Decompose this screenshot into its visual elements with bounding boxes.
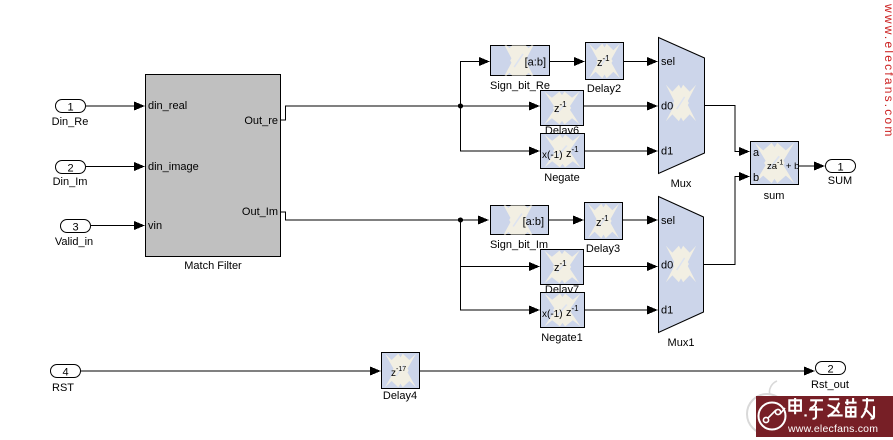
wire Delay2 to Mux sel: [624, 57, 658, 66]
svg-text:za-1 + b: za-1 + b: [767, 160, 799, 173]
svg-text:Match Filter: Match Filter: [184, 260, 242, 272]
block Negate: [541, 134, 585, 185]
junction node Out_re: [458, 103, 463, 108]
wire branch to Delay7: [461, 220, 541, 271]
svg-text:Negate: Negate: [544, 172, 579, 184]
svg-text:d1: d1: [661, 305, 673, 317]
block Mux: [659, 38, 705, 191]
svg-text:SUM: SUM: [828, 175, 852, 187]
block Mux1: [659, 197, 704, 350]
input port 2 Din_Im: [53, 161, 88, 189]
block Sign_bit_Im: [490, 201, 549, 251]
block Delay4: [382, 353, 420, 403]
svg-text:a: a: [753, 147, 760, 159]
watermark embossed curl outside box: [747, 381, 787, 434]
wire branch to Negate1: [461, 267, 541, 315]
svg-text:Delay2: Delay2: [587, 83, 621, 95]
wire Out_re trunk: [281, 106, 460, 120]
svg-text:d0: d0: [661, 260, 673, 272]
svg-text:x(-1): x(-1): [542, 309, 563, 320]
svg-text:2: 2: [827, 364, 833, 376]
svg-text:Delay4: Delay4: [383, 390, 417, 402]
block Delay6: [541, 91, 584, 126]
wire sum to SUM port: [799, 162, 825, 171]
svg-text:d0: d0: [661, 101, 673, 113]
wire Sign_bit_Im to Delay3: [548, 216, 584, 225]
svg-text:Out_re: Out_re: [244, 115, 278, 127]
svg-text:b: b: [753, 172, 759, 184]
wire branch to Negate: [461, 106, 541, 156]
svg-text:[a:b]: [a:b]: [523, 216, 544, 228]
svg-text:1: 1: [837, 162, 843, 174]
svg-text:Sign_bit_Im: Sign_bit_Im: [490, 239, 548, 251]
wire Delay6 to Mux d0: [584, 102, 658, 111]
output port 1 SUM: [826, 160, 856, 188]
wire branch to Delay6: [460, 102, 540, 111]
svg-text:Delay3: Delay3: [586, 243, 620, 255]
svg-text:[a:b]: [a:b]: [525, 57, 546, 69]
wire Delay7 to Mux1 d0: [584, 262, 658, 271]
input port 1 Din_Re: [52, 100, 89, 129]
wire Mux to sum a: [704, 106, 750, 157]
svg-text:RST: RST: [52, 382, 74, 394]
svg-text:Valid_in: Valid_in: [55, 236, 93, 248]
block Delay3: [585, 203, 623, 256]
input port 3 Valid_in: [55, 220, 93, 249]
svg-text:sel: sel: [661, 215, 675, 227]
block Delay2: [586, 43, 624, 96]
wire Din_Re to Match Filter: [86, 102, 145, 111]
wire RST to Delay4: [81, 367, 381, 376]
wire Out_Im trunk: [281, 212, 460, 220]
svg-text:1: 1: [67, 102, 73, 114]
svg-text:x(-1): x(-1): [542, 150, 563, 161]
svg-text:Negate1: Negate1: [541, 332, 583, 344]
svg-text:vin: vin: [148, 220, 162, 232]
block sum: [751, 142, 800, 203]
svg-text:din_real: din_real: [148, 100, 187, 112]
block Sign_bit_Re: [490, 41, 550, 92]
svg-text:Din_Re: Din_Re: [52, 116, 89, 128]
wire branch to Sign_bit_Re: [461, 57, 491, 106]
svg-text:2: 2: [67, 163, 73, 175]
wire Delay4 to Rst_out: [419, 367, 815, 376]
block Match Filter: [146, 75, 281, 273]
output port 2 Rst_out: [811, 362, 849, 392]
svg-text:Mux1: Mux1: [668, 337, 695, 349]
wire Din_Im to Match Filter: [86, 162, 145, 171]
svg-text:4: 4: [62, 367, 68, 379]
input port 4 RST: [51, 365, 81, 395]
watermark elecfans logo box bottom right: [756, 396, 893, 437]
svg-text:sel: sel: [661, 56, 675, 68]
svg-text:sum: sum: [764, 190, 785, 202]
wire Valid_in to Match Filter: [91, 221, 145, 230]
svg-text:www.elecfans.com: www.elecfans.com: [787, 423, 878, 435]
wire Mux1 to sum b: [703, 172, 750, 265]
svg-text:d1: d1: [661, 146, 673, 158]
junction node Out_Im: [458, 217, 463, 222]
wire into Sign_bit_Im: [460, 216, 489, 225]
svg-text:Out_Im: Out_Im: [242, 206, 278, 218]
wire Negate1 to Mux1 d1: [585, 306, 658, 315]
wire Delay3 to Mux1 sel: [622, 216, 658, 225]
block Negate1: [541, 293, 585, 345]
svg-text:Rst_out: Rst_out: [811, 379, 849, 391]
svg-text:3: 3: [72, 222, 78, 234]
wire Negate to Mux d1: [585, 147, 658, 156]
block Delay7: [541, 250, 584, 285]
wire Sign_bit_Re to Delay2: [550, 57, 585, 66]
svg-text:Mux: Mux: [671, 178, 692, 190]
svg-text:din_image: din_image: [148, 161, 199, 173]
svg-text:Din_Im: Din_Im: [53, 176, 88, 188]
svg-text:www.elecfans.com: www.elecfans.com: [882, 3, 893, 139]
